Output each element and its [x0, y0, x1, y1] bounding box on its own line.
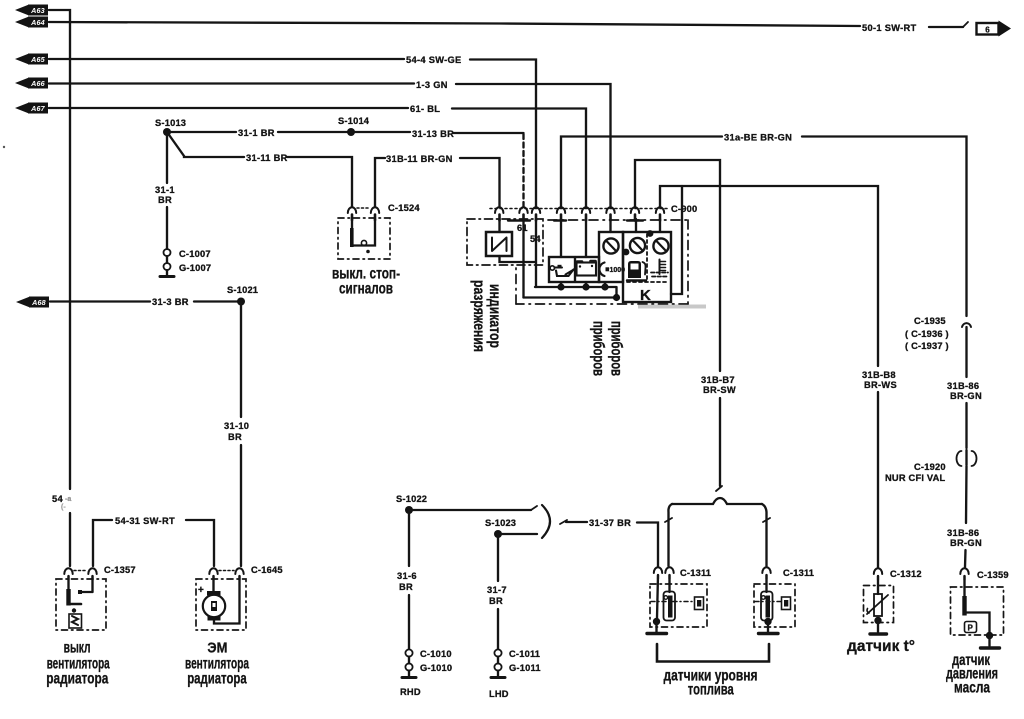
- battery icon: [577, 261, 597, 276]
- svg-text:C-1357: C-1357: [104, 565, 136, 575]
- label stop lamp switch: [332, 266, 400, 298]
- svg-text:ЭМ: ЭМ: [207, 640, 227, 657]
- wire pin2 down inside cluster: [522, 219, 524, 298]
- svg-text:G-1011: G-1011: [509, 663, 541, 673]
- wire 31B-86 BR-GN from C-1920 to oil pressure sensor C-1359: [965, 466, 967, 567]
- wire pin3 (54) down inside cluster: [535, 219, 537, 287]
- dashed internal divider: [627, 234, 668, 282]
- fan motor return wire: [214, 576, 240, 624]
- connector arrow A67 (in): [15, 103, 48, 114]
- svg-text:31B-B8: 31B-B8: [862, 370, 896, 380]
- svg-text:разряжения: разряжения: [470, 280, 487, 352]
- svg-text:сигналов: сигналов: [339, 281, 393, 298]
- oil pressure sensor contact: [962, 576, 993, 639]
- value label 31-6 BR: [397, 571, 417, 592]
- node S-1014: [338, 116, 370, 136]
- svg-text:BR-GN: BR-GN: [950, 538, 982, 548]
- svg-text:A67: A67: [30, 104, 46, 113]
- label fan motor: [185, 640, 249, 688]
- fuel sender 2 element: [755, 575, 791, 621]
- svg-text:C-1011: C-1011: [509, 649, 540, 659]
- label fan switch: [46, 640, 110, 688]
- svg-text:BR: BR: [228, 432, 242, 442]
- temp sensor body (dashed box): [864, 586, 894, 623]
- svg-text:выкл: выкл: [64, 640, 91, 657]
- svg-text:C-1312: C-1312: [890, 569, 922, 579]
- electric motor M1: [203, 576, 225, 621]
- fuel sender 1 connector C-1311: [654, 567, 711, 579]
- svg-text:C-900: C-900: [671, 204, 697, 214]
- svg-text:индикатор: индикатор: [486, 284, 503, 348]
- oil can icon: [550, 265, 575, 276]
- coolant temp icon: [651, 260, 668, 277]
- svg-text:LHD: LHD: [489, 689, 509, 699]
- svg-text:( C-1936 ): ( C-1936 ): [905, 329, 949, 339]
- svg-text:BR: BR: [158, 195, 172, 205]
- wire 31-10 BR from S-1021 to fan motor C-1645: [240, 302, 242, 567]
- svg-text:S-1021: S-1021: [227, 285, 258, 295]
- svg-text:G-1010: G-1010: [420, 663, 452, 673]
- fuel sender 2 ground: [759, 618, 779, 634]
- svg-text:P: P: [968, 624, 974, 633]
- node S-1022: [396, 494, 427, 514]
- wire from gauge box to temp sender line: [671, 186, 682, 294]
- wire pin7 to gauge box K: [635, 219, 637, 232]
- svg-text:A63: A63: [30, 6, 45, 15]
- svg-text:C-1645: C-1645: [251, 565, 283, 575]
- value label 31-10 BR: [224, 421, 249, 442]
- ground connector C-1011 / G-1011 with LHD: [489, 649, 541, 699]
- node S-1023: [485, 518, 516, 538]
- svg-text:NUR CFI VAL: NUR CFI VAL: [885, 473, 946, 483]
- node S-1021: [227, 285, 258, 306]
- svg-text:K: K: [640, 287, 651, 304]
- value label 31B-86 BR-GN (lower): [947, 528, 982, 548]
- dash-dot box around instrument cluster: [516, 220, 688, 304]
- svg-text:54: 54: [52, 494, 63, 504]
- wire 31-11 BR from S-1013 to stop lamp switch: [167, 132, 352, 207]
- stop lamp switch body (dashed box): [338, 218, 390, 259]
- wire 31-7 BR from S-1023 to ground C-1011: [497, 534, 499, 649]
- value label 31-1 BR (vertical run): [155, 185, 175, 205]
- fan switch contacts: [66, 576, 92, 613]
- svg-text:31-1: 31-1: [155, 185, 175, 195]
- svg-text:S-1014: S-1014: [338, 116, 370, 126]
- temp sensor connector C-1312: [874, 568, 922, 580]
- wire 54-2 vertical from A63 to fan switch C-1357: [49, 10, 70, 566]
- svg-text:S-1013: S-1013: [155, 118, 186, 128]
- svg-text:A64: A64: [30, 18, 45, 27]
- connector arrow A63 (in): [15, 5, 48, 16]
- wire 31-6 BR from S-1022 to ground C-1010: [408, 510, 410, 649]
- svg-text:радиатора: радиатора: [187, 671, 247, 688]
- value label 31B-B7 BR-SW: [701, 375, 736, 395]
- svg-text:BR: BR: [399, 582, 413, 592]
- svg-text:6: 6: [985, 26, 990, 35]
- temp sensor thermistor element: [867, 576, 888, 616]
- svg-text:-a: -a: [65, 496, 71, 503]
- fuel sender 2 connector C-1311: [762, 567, 814, 579]
- wire 31a-BE BR-GN from C-900 pin 4 to oil pressure sensor chain: [561, 137, 967, 317]
- junction dot on box top: [647, 230, 654, 237]
- gauge dial 2 (crossed circle): [630, 238, 645, 253]
- brace under fuel senders: [657, 644, 769, 662]
- fan motor connector C-1645: [209, 565, 282, 580]
- wire 61 BL from A67 to C-900 pin 5: [49, 108, 586, 207]
- oil pressure sensor ground: [981, 635, 1000, 648]
- svg-text:31-11 BR: 31-11 BR: [246, 153, 288, 163]
- fuel sender 1 body (dashed box): [650, 584, 707, 627]
- wire 31-1 BR vertical from S-1013 to ground C-1007: [166, 132, 168, 249]
- wire pin6 to gauge box: [609, 219, 611, 232]
- wire pin1 to indicator box: [498, 219, 500, 232]
- wire 50-1 SW-RT from A64 to arrow 6: [49, 22, 968, 27]
- wire 1-3 GN from A66 to C-900 pin 6: [49, 84, 611, 208]
- fan switch temperature element box: [69, 614, 82, 628]
- svg-text:C-1524: C-1524: [388, 203, 420, 213]
- wire split brace to both fuel senders: [665, 498, 770, 566]
- svg-text:31-13 BR: 31-13 BR: [412, 129, 454, 139]
- voltmeter gauge box: [599, 232, 623, 282]
- svg-text:31-7: 31-7: [487, 585, 507, 595]
- gauge dial 1 (crossed circle): [603, 238, 618, 253]
- wire 31-13 BR from S-1014 to C-900 pin 2: [351, 132, 524, 207]
- fan motor body (dashed box): [196, 579, 246, 630]
- svg-text:датчик t°: датчик t°: [847, 638, 915, 655]
- scan smudge under gauge box: [638, 305, 706, 309]
- svg-text:C-1311: C-1311: [783, 568, 814, 578]
- oil pressure sensor connector C-1359: [960, 568, 1008, 580]
- fuel sender 1 ground: [647, 618, 667, 634]
- svg-text:31-10: 31-10: [224, 421, 249, 431]
- junction dot on box left edge: [623, 249, 630, 256]
- svg-text:C-1359: C-1359: [977, 570, 1009, 580]
- svg-text:31-3 BR: 31-3 BR: [152, 297, 189, 307]
- value label 54- (faded) on wire: [52, 494, 71, 511]
- fuel pump icon: [627, 261, 646, 281]
- svg-text:54-31 SW-RT: 54-31 SW-RT: [115, 516, 175, 526]
- svg-text:31B-86: 31B-86: [947, 381, 979, 391]
- svg-text:BR-SW: BR-SW: [703, 385, 736, 395]
- wire from indicator to bus: [500, 256, 536, 262]
- fan switch body (dashed box): [56, 579, 106, 630]
- ground connector C-1007 / G-1007: [160, 249, 211, 277]
- svg-text:+: +: [198, 585, 204, 596]
- connector arrow 6 (out, top right): [977, 21, 1012, 37]
- wire 31B-B7 BR-SW from C-900 pin 7 to fuel level sender split: [635, 160, 722, 491]
- oil / battery telltale box: [549, 257, 599, 282]
- connector arrow A65 (in): [15, 54, 48, 65]
- wire 31B-B8 BR-WS from C-900 pin 8 to temp sensor C-1312: [660, 186, 878, 567]
- dash-dot box around voltage indicator: [467, 219, 543, 265]
- op-amp style voltage indicator box (И): [486, 232, 512, 256]
- value label 31B-86 BR-GN: [947, 381, 982, 401]
- svg-text:31B-86: 31B-86: [947, 528, 979, 538]
- wire pin5 to gauge block: [585, 219, 587, 257]
- fuel sender 1 element: [651, 575, 704, 621]
- svg-text:топлива: топлива: [688, 682, 734, 699]
- gauge dial 3 (crossed circle): [653, 238, 668, 253]
- svg-text:61- BL: 61- BL: [410, 104, 440, 114]
- pin terminal crossbar marks inside cluster: [508, 219, 643, 221]
- inline connector C-1935 (C-1936) (C-1937): [905, 316, 971, 351]
- svg-text:радиатора: радиатора: [46, 671, 108, 688]
- svg-text:S-1023: S-1023: [485, 518, 516, 528]
- oil pressure sensor body (dashed box): [951, 587, 1004, 635]
- svg-text:C-1920: C-1920: [914, 462, 946, 472]
- svg-text:31B-11 BR-GN: 31B-11 BR-GN: [386, 154, 453, 164]
- ground connector C-1010 / G-1010 with RHD: [400, 649, 452, 697]
- svg-text:( C-1937 ): ( C-1937 ): [905, 341, 949, 351]
- label oil pressure sensor: [946, 652, 998, 697]
- svg-text:BR: BR: [489, 596, 503, 606]
- svg-text:RHD: RHD: [400, 687, 421, 697]
- svg-text:приборов: приборов: [590, 321, 607, 376]
- svg-text:31-6: 31-6: [397, 571, 417, 581]
- wire 31B-86 BR-GN from C-1935 to C-1920: [965, 327, 967, 448]
- svg-text:приборов: приборов: [608, 321, 625, 376]
- oil pressure P symbol: [965, 622, 977, 633]
- svg-text:C-1935: C-1935: [914, 316, 946, 326]
- connector arrow A64 (in): [15, 17, 48, 28]
- node S-1013: [155, 118, 186, 136]
- label fuel level senders: [664, 668, 758, 699]
- wire pin8 to gauge box K: [659, 219, 661, 232]
- value label 31B-B8 BR-WS: [862, 370, 897, 390]
- inline connector C-1920 (NUR CFI VAL): [885, 450, 977, 483]
- svg-text:50-1 SW-RT: 50-1 SW-RT: [862, 23, 916, 33]
- wire 31-1 BR from S-1013 to S-1014: [167, 131, 351, 133]
- svg-text:BR-WS: BR-WS: [864, 380, 897, 390]
- stop lamp switch contacts: [350, 219, 375, 253]
- svg-text:31B-B7: 31B-B7: [701, 375, 735, 385]
- connector C-900 pin row (8 pins): [490, 207, 668, 220]
- svg-text:S-1022: S-1022: [396, 494, 427, 504]
- svg-text:(-: (-: [61, 504, 66, 511]
- svg-text:BR-GN: BR-GN: [950, 391, 982, 401]
- stray scan mark: [3, 146, 5, 148]
- temp sensor ground: [870, 617, 887, 634]
- combined gauge box K: [623, 232, 671, 302]
- connector arrow A66 (in): [15, 78, 48, 89]
- wire merge of S-1022 and S-1023 branches: [409, 505, 567, 538]
- svg-text:31-1 BR: 31-1 BR: [238, 128, 275, 138]
- svg-text:1-3 GN: 1-3 GN: [416, 80, 448, 90]
- svg-text:31-37 BR: 31-37 BR: [589, 518, 631, 528]
- wire 31B-11 BR-GN from stop lamp switch to C-900 pin 1: [375, 158, 500, 207]
- svg-text:G-1007: G-1007: [179, 263, 211, 273]
- svg-text:31a-BE BR-GN: 31a-BE BR-GN: [724, 133, 792, 143]
- wire pin4 to gauge block: [560, 219, 562, 257]
- internal bus row 1: [535, 282, 617, 298]
- wire 31-37 BR from merge to left fuel sender: [566, 522, 658, 566]
- svg-text:C-1007: C-1007: [179, 249, 211, 259]
- svg-text:A68: A68: [31, 298, 46, 307]
- value label 31-7 BR: [487, 585, 507, 606]
- connector arrow A68 (in): [16, 297, 49, 308]
- internal bus row 2: [524, 294, 621, 301]
- wire 31-3 BR from A68 to node S-1021: [50, 300, 241, 302]
- stop lamp switch connector C-1524: [348, 203, 421, 220]
- svg-text:A65: A65: [30, 55, 46, 64]
- svg-text:C-1311: C-1311: [680, 568, 711, 578]
- svg-text:A66: A66: [30, 79, 46, 88]
- fan switch connector C-1357: [64, 565, 135, 580]
- value label (1000: [599, 263, 625, 277]
- svg-text:54-4 SW-GE: 54-4 SW-GE: [406, 55, 462, 65]
- wire 54-31 SW-RT from fan switch to fan motor: [93, 520, 214, 566]
- fuel sender 2 body (dashed box): [754, 584, 795, 627]
- wire 54-4 SW-GE from A65 to C-900 pin 3: [49, 59, 536, 207]
- svg-text:C-1010: C-1010: [420, 649, 452, 659]
- svg-text:масла: масла: [954, 680, 990, 697]
